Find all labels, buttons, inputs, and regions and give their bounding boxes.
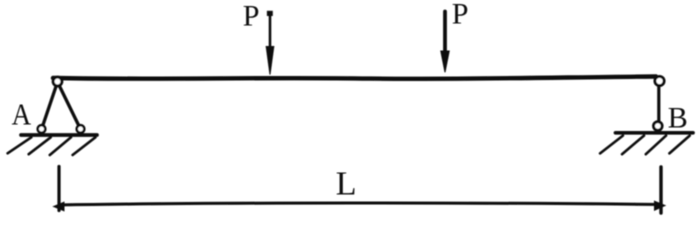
svg-text:B: B — [668, 102, 688, 135]
beam — [53, 77, 656, 79]
dimension left extension tick — [57, 167, 60, 211]
support B ground line — [616, 131, 694, 135]
support B top pin — [655, 76, 664, 85]
support A hatching — [8, 137, 96, 155]
dimension left arrowhead — [52, 202, 64, 212]
load P2 arrow — [441, 12, 449, 73]
support A ground line — [21, 133, 97, 137]
svg-text:P: P — [452, 0, 469, 31]
load P1 arrow — [266, 11, 274, 75]
support B bottom pin — [654, 122, 663, 131]
support A bottom pin left — [38, 125, 46, 133]
support A top pin — [53, 77, 62, 86]
dimension right arrowhead — [654, 201, 666, 212]
support A triangle legs — [42, 82, 80, 129]
svg-text:L: L — [336, 166, 357, 203]
support B link — [657, 82, 660, 126]
dimension line — [59, 203, 661, 205]
support B hatching — [600, 136, 690, 155]
svg-text:A: A — [12, 97, 32, 132]
svg-text:P: P — [243, 0, 260, 33]
support A bottom pin right — [77, 125, 85, 133]
dimension right extension tick — [659, 167, 662, 213]
